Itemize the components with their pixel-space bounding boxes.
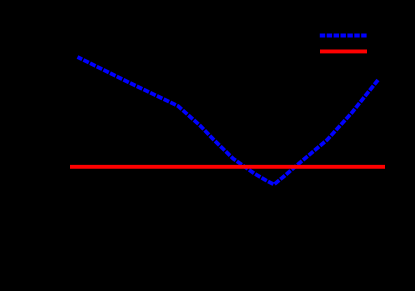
blue dashed curve (test error) (78, 57, 379, 185)
legend red solid sample (320, 49, 367, 53)
legend blue dashed sample (320, 34, 367, 38)
red horizontal line (Bayes error) (70, 165, 385, 169)
